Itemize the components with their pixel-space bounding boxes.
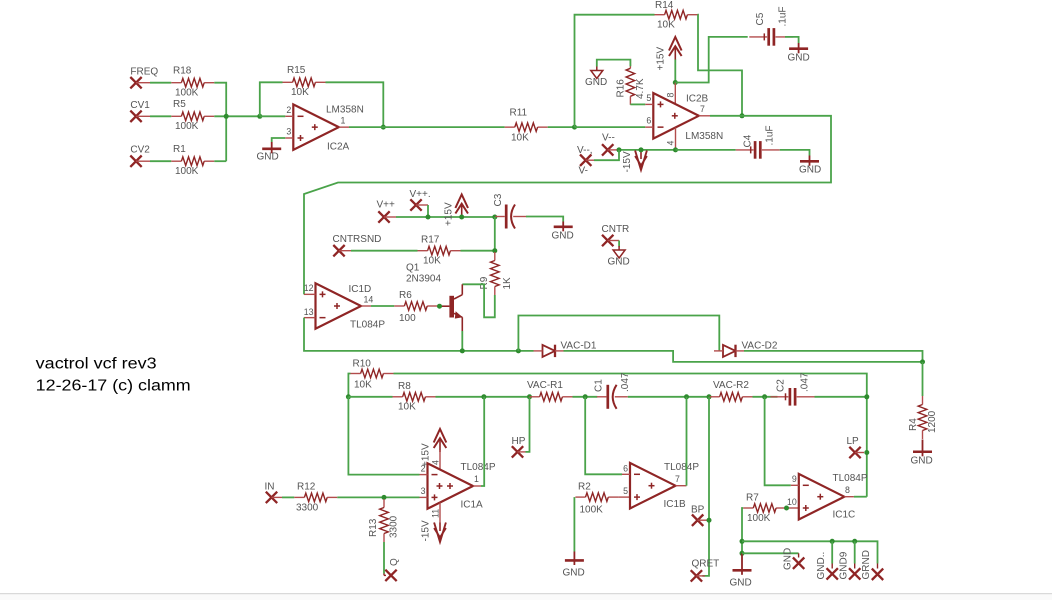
wire to V-: [594, 150, 619, 160]
resistor R13: [368, 499, 400, 542]
svg-text:IC1A: IC1A: [461, 500, 484, 511]
transistor Q1 2N3904: [406, 263, 463, 332]
wire +15V to pin8 node: [674, 60, 676, 83]
svg-text:R8: R8: [398, 381, 411, 392]
resistor R7: [743, 493, 786, 525]
svg-text:10K: 10K: [354, 380, 372, 391]
wire to IC2A pin2: [260, 115, 286, 117]
svg-text:C4: C4: [743, 134, 754, 147]
resistor R18: [171, 66, 214, 99]
svg-text:3300: 3300: [296, 503, 319, 514]
svg-text:IC1B: IC1B: [664, 499, 687, 510]
svg-text:5: 5: [623, 486, 628, 496]
node R4 junction: [920, 359, 925, 364]
node R10/R8 junction: [346, 394, 351, 399]
svg-text:GND: GND: [911, 456, 933, 467]
pin 4 line IC1A: [431, 450, 441, 470]
svg-text:HP: HP: [512, 436, 526, 447]
wire IC1B output up: [686, 397, 688, 486]
resistor R8: [393, 381, 436, 413]
wire C4 to GND: [780, 150, 810, 156]
ground GND at C5: [788, 43, 810, 64]
svg-text:12-26-17 (c) clamm: 12-26-17 (c) clamm: [36, 378, 191, 395]
pin 4 line IC2B: [666, 128, 676, 150]
svg-text:7: 7: [675, 474, 680, 484]
svg-text:GND: GND: [257, 152, 279, 163]
svg-text:IC1D: IC1D: [349, 284, 372, 295]
wire R11 to pin6 node: [548, 126, 575, 128]
svg-text:R13: R13: [368, 518, 379, 537]
wire R16 to IC2B pin5: [630, 103, 645, 105]
node output column junction: [864, 394, 869, 399]
svg-text:CNTRSND: CNTRSND: [333, 234, 382, 245]
node IC1A output junction: [481, 394, 486, 399]
wire R6 to Q1 base: [437, 305, 439, 307]
svg-text:CNTR: CNTR: [602, 224, 630, 235]
svg-text:3: 3: [286, 127, 291, 137]
wire to IC1B pin6: [585, 397, 622, 475]
svg-text:-15V: -15V: [421, 520, 432, 541]
wire R2 left to GND: [573, 497, 575, 551]
svg-text:GND: GND: [730, 578, 752, 589]
wire IC1C output: [854, 496, 867, 498]
wire drop GND9: [854, 541, 856, 563]
svg-text:100K: 100K: [175, 166, 199, 177]
power -15V at IC2B pin4: [622, 151, 647, 173]
node +15V junction: [673, 80, 678, 85]
svg-text:10K: 10K: [291, 87, 309, 98]
wire R2 to IC1B pin5: [618, 496, 630, 498]
wire R1 out: [214, 160, 226, 162]
node pin4 junction: [673, 147, 678, 152]
pin GND..: [816, 552, 838, 580]
svg-text:4.7K: 4.7K: [635, 78, 646, 99]
svg-text:3300: 3300: [389, 515, 400, 538]
node pin6 junction: [572, 125, 577, 130]
wire VAC-D1 to R4 node: [564, 351, 923, 362]
svg-text:Q: Q: [389, 558, 400, 566]
svg-text:.047: .047: [800, 372, 811, 392]
svg-text:FREQ: FREQ: [130, 67, 158, 78]
svg-text:IN: IN: [265, 482, 275, 493]
capacitor C3: [493, 193, 526, 228]
node Q1 base junction: [437, 304, 442, 309]
svg-text:TL084P: TL084P: [664, 462, 699, 473]
wire IC2A output to R11: [349, 126, 505, 128]
power -15V at IC1A pin11: [421, 520, 446, 542]
node IC1B output junction: [684, 394, 689, 399]
wire R18/R1 join vertical: [214, 83, 226, 162]
node BP junction: [707, 518, 712, 523]
svg-text:1: 1: [341, 116, 346, 126]
ground GND at CNTR: [608, 246, 630, 268]
power +15V at IC2B pin8: [656, 37, 682, 71]
svg-text:IC2A: IC2A: [327, 142, 350, 153]
ground GND at C4: [799, 156, 821, 176]
svg-text:C3: C3: [493, 193, 504, 206]
pin V-: [577, 145, 594, 177]
resistor R17: [418, 235, 461, 267]
resistor R15: [283, 65, 326, 98]
svg-text:100K: 100K: [175, 121, 199, 132]
wire C5 to GND: [785, 37, 799, 43]
node IC2B output junction: [740, 113, 745, 118]
svg-text:9: 9: [792, 474, 797, 484]
svg-text:GND: GND: [585, 77, 607, 88]
ground GND at C3: [552, 222, 574, 242]
svg-text:GND: GND: [783, 548, 794, 570]
wire pin4 to C4: [676, 149, 736, 151]
svg-text:R12: R12: [297, 482, 316, 493]
svg-text:GND: GND: [608, 257, 630, 268]
svg-text:7: 7: [700, 104, 705, 114]
node IC2A output junction: [381, 125, 386, 130]
capacitor C2 .047: [771, 372, 815, 406]
title text: [36, 356, 191, 395]
resistor VAC-R2: [710, 380, 753, 401]
wire V++. drop: [427, 205, 429, 217]
svg-text:3: 3: [421, 486, 426, 496]
wire R14 to IC2B output: [698, 15, 743, 116]
resistor R1: [171, 144, 214, 177]
pin HP: [512, 436, 526, 458]
svg-text:.047: .047: [620, 372, 631, 392]
wire V++ row: [396, 216, 495, 218]
svg-text:TL084P: TL084P: [461, 462, 496, 473]
svg-text:R18: R18: [173, 66, 192, 77]
wire to IC1C pin9: [765, 397, 791, 486]
svg-text:V--,: V--,: [577, 145, 593, 156]
svg-text:12: 12: [304, 283, 314, 293]
wire CNTRSND to R17: [351, 250, 418, 252]
wire C3 to GND: [526, 217, 563, 222]
wire IC1A output up: [481, 397, 484, 486]
svg-text:GRND: GRND: [861, 550, 872, 579]
node R17/R9 junction: [492, 248, 497, 253]
op-amp IC1D: [304, 283, 386, 331]
svg-text:R5: R5: [173, 99, 186, 110]
wire GND rail lower: [742, 552, 799, 554]
svg-text:1200: 1200: [927, 410, 938, 433]
resistor R6: [394, 290, 437, 324]
wire IC1D out to R6: [371, 305, 394, 307]
pin V--: [602, 133, 619, 156]
wire VAC-D2 to R4 node: [744, 351, 923, 362]
svg-text:10K: 10K: [423, 256, 441, 267]
svg-text:C1: C1: [594, 379, 605, 392]
wire CV1 to R5: [150, 115, 171, 117]
wire R8 to VAC-R1: [436, 396, 530, 398]
svg-text:QRET: QRET: [692, 559, 720, 570]
node HP junction: [527, 394, 532, 399]
svg-text:IC1C: IC1C: [833, 510, 856, 521]
wire branch to VAC-D2: [518, 316, 719, 351]
svg-text:100K: 100K: [580, 504, 604, 515]
op-amp IC1A: [420, 462, 496, 511]
svg-text:11: 11: [431, 509, 441, 518]
svg-text:5: 5: [646, 93, 651, 103]
svg-text:GND: GND: [552, 231, 574, 242]
wire R7 to IC1C pin10: [786, 507, 799, 509]
power +15V at V++ row: [444, 195, 469, 227]
wire R13 to Q pin: [383, 542, 385, 574]
node GND rail junction 1: [740, 539, 745, 544]
pin FREQ: [130, 67, 158, 89]
resistor R14: [655, 0, 698, 30]
wire Q1 emitter down: [461, 331, 463, 351]
wire to IC2B pin6: [575, 126, 646, 128]
svg-text:100: 100: [399, 313, 416, 324]
pin CV2: [130, 145, 150, 167]
pin GND9: [839, 551, 861, 579]
wire C1 to VAC-R2: [628, 396, 709, 398]
pin V++: [377, 200, 397, 223]
wire to HP pin: [526, 397, 530, 452]
pin BP: [691, 505, 709, 526]
svg-text:BP: BP: [691, 505, 705, 516]
svg-text:V--: V--: [602, 133, 615, 144]
resistor R11: [505, 107, 548, 143]
svg-text:.1uF: .1uF: [765, 125, 776, 145]
svg-text:LP: LP: [847, 436, 860, 447]
pin 8 line IC2B: [666, 83, 676, 105]
svg-text:V++.: V++.: [410, 189, 431, 200]
wire R10 to IC1C output: [394, 374, 867, 497]
resistor R4: [908, 396, 938, 439]
svg-text:100K: 100K: [747, 513, 771, 524]
pin CNTRSND: [333, 234, 382, 256]
svg-text:TL084P: TL084P: [833, 473, 868, 484]
svg-text:R4: R4: [908, 418, 919, 431]
svg-text:-15V: -15V: [622, 151, 633, 172]
pin GRND: [861, 550, 883, 580]
wire IN to R12: [282, 496, 294, 498]
svg-text:4: 4: [666, 141, 676, 146]
svg-text:10K: 10K: [398, 402, 416, 413]
pin V++.: [410, 189, 431, 211]
svg-text:TL084P: TL084P: [350, 320, 385, 331]
ground GND at R2: [563, 552, 585, 579]
svg-text:R7: R7: [746, 493, 759, 504]
node R13 junction: [382, 495, 387, 500]
svg-text:.1uF: .1uF: [778, 6, 789, 26]
window edge bottom: [0, 594, 1052, 600]
resistor R10: [351, 359, 394, 391]
svg-text:C2: C2: [776, 379, 787, 392]
wire down to R4: [922, 362, 924, 396]
svg-text:8: 8: [666, 93, 676, 98]
wire up to R14: [575, 15, 655, 127]
svg-text:Q1: Q1: [406, 263, 420, 274]
svg-text:LM358N: LM358N: [326, 104, 364, 115]
wire R10 left corner: [348, 374, 350, 397]
resistor R12: [294, 482, 337, 514]
node summing junction: [224, 114, 229, 119]
svg-text:1K: 1K: [502, 277, 513, 290]
svg-text:100K: 100K: [175, 87, 199, 98]
svg-text:10K: 10K: [657, 19, 675, 30]
diode VAC-D2: [714, 341, 778, 358]
wire C3 node down: [494, 217, 496, 251]
node GND.. junction: [830, 539, 835, 544]
op-amp IC2A: [285, 104, 364, 152]
wire VAC-R2 to C2: [753, 396, 778, 398]
op-amp IC1B: [622, 462, 699, 510]
svg-text:GND: GND: [788, 53, 810, 64]
wire GND rail upper: [742, 541, 878, 563]
svg-text:8: 8: [845, 485, 850, 495]
wire R12 to IC1A pin3: [337, 496, 419, 498]
wire VAC-R1 to C1: [573, 396, 598, 398]
svg-text:13: 13: [304, 307, 314, 317]
ground GND at R7: [730, 553, 752, 588]
wire R15 right to output: [326, 82, 384, 127]
pin LP: [847, 436, 865, 458]
node feedback junction: [257, 114, 262, 119]
wire R5 to summing node: [214, 115, 259, 117]
pin CNTR: [602, 224, 630, 246]
node LP junction: [864, 450, 869, 455]
wire +15V to C5: [675, 37, 747, 83]
wire to R15 left: [260, 82, 283, 116]
svg-text:CV1: CV1: [130, 100, 150, 111]
wire -15V row: [619, 149, 676, 151]
node +15V V++ junction: [459, 215, 464, 220]
resistor VAC-R1: [527, 380, 573, 401]
svg-text:V++: V++: [377, 200, 396, 211]
capacitor C1 .047: [594, 372, 632, 409]
svg-text:vactrol vcf rev3: vactrol vcf rev3: [36, 356, 157, 373]
wire R16 top to GND: [597, 60, 631, 67]
wire CNTR drop: [618, 241, 620, 247]
resistor R9: [479, 252, 513, 295]
node R7 pin10 junction: [784, 506, 789, 511]
resistor R2: [575, 482, 618, 516]
svg-text:LM358N: LM358N: [685, 131, 723, 142]
wire BP/QRET column: [702, 397, 709, 576]
svg-text:10: 10: [787, 497, 797, 507]
svg-text:GND..: GND..: [816, 552, 827, 580]
pin QRET: [691, 559, 720, 582]
svg-text:R6: R6: [399, 290, 412, 301]
node C1 junction: [583, 394, 588, 399]
svg-text:6: 6: [623, 463, 628, 473]
power +15V at IC1A pin4: [421, 429, 447, 467]
node V++ junction: [426, 215, 431, 220]
svg-text:C5: C5: [755, 12, 766, 25]
resistor R16: [616, 60, 647, 105]
svg-text:2: 2: [421, 463, 426, 473]
pin CV1: [130, 100, 150, 122]
pin 11 line IC1A: [431, 503, 441, 523]
svg-text:R17: R17: [421, 235, 440, 246]
svg-text:R14: R14: [655, 0, 674, 11]
node IC1C pin9 junction: [762, 394, 767, 399]
svg-text:VAC-R1: VAC-R1: [527, 380, 563, 391]
wire FREQ to R18: [150, 82, 171, 84]
pin Q: [384, 558, 400, 581]
wire IC2B output to IC1D pin12: [304, 116, 831, 295]
pin IN: [265, 482, 283, 504]
svg-text:GND: GND: [799, 165, 821, 176]
node V-- junction: [617, 147, 622, 152]
svg-text:GND9: GND9: [839, 551, 850, 579]
svg-text:1: 1: [474, 474, 479, 484]
wire R17 to R9 node: [461, 250, 495, 252]
svg-text:+15V: +15V: [444, 202, 455, 226]
wire R7 left down: [742, 508, 743, 553]
capacitor C4 .1uF: [736, 125, 780, 158]
ground GND at R4: [911, 440, 933, 467]
svg-text:IC2B: IC2B: [686, 94, 709, 105]
svg-text:R11: R11: [510, 107, 528, 118]
ground GND at IC2A pin3: [257, 138, 286, 163]
svg-text:R10: R10: [353, 359, 372, 370]
node C3 junction: [492, 215, 497, 220]
svg-text:+15V: +15V: [656, 47, 667, 71]
wire C2 to output node: [815, 396, 867, 398]
svg-text:2: 2: [286, 105, 291, 115]
svg-text:VAC-D2: VAC-D2: [742, 341, 778, 352]
svg-text:VAC-R2: VAC-R2: [713, 380, 749, 391]
svg-text:R2: R2: [578, 482, 591, 493]
svg-text:VAC-D1: VAC-D1: [561, 341, 597, 352]
svg-text:6: 6: [646, 116, 651, 126]
svg-text:CV2: CV2: [130, 145, 150, 156]
node GND9 junction: [852, 539, 857, 544]
wire CV2 to R1: [150, 160, 171, 162]
wire R9 to Q1 collector: [462, 284, 495, 317]
ground GND at R16: [585, 67, 607, 89]
svg-text:4: 4: [431, 460, 441, 465]
node emitter junction: [460, 348, 465, 353]
node BP/QRET junction: [707, 394, 712, 399]
pin GND lower: [783, 548, 805, 570]
svg-text:14: 14: [364, 295, 374, 305]
node GND rail junction 2: [740, 551, 745, 556]
capacitor C5 .1uF: [749, 6, 793, 45]
wire drop GND..: [831, 541, 833, 563]
resistor R5: [171, 99, 214, 132]
svg-text:R15: R15: [287, 65, 306, 76]
node VAC-D2 branch junction: [516, 348, 521, 353]
wire to R8: [348, 396, 392, 398]
svg-text:R1: R1: [173, 144, 186, 155]
svg-text:GND: GND: [563, 568, 585, 579]
svg-text:10K: 10K: [511, 133, 529, 144]
op-amp IC1C: [787, 473, 868, 521]
svg-text:V-: V-: [579, 166, 588, 177]
wire IC1D pin13 to VAC-D1 row: [304, 318, 534, 351]
diode VAC-D1: [534, 341, 597, 358]
svg-text:R16: R16: [616, 79, 627, 98]
op-amp IC2B: [645, 93, 723, 142]
node -15V junction: [639, 147, 644, 152]
svg-text:2N3904: 2N3904: [406, 274, 441, 285]
wire to IC1A pin2: [348, 397, 419, 475]
